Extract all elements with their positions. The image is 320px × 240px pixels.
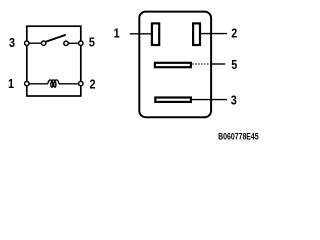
leader line pin 5 (dotted inside body) (192, 63, 211, 65)
coil L1 (48, 80, 59, 87)
svg-text:1: 1 (114, 25, 120, 40)
wire from fixed contact to pin 5 terminal (68, 42, 80, 44)
contact circle (fixed) (64, 41, 68, 45)
pin 5 slot (155, 63, 191, 67)
pin 3 terminal (25, 41, 29, 45)
pin 2 slot (193, 23, 200, 45)
pin 2 terminal (79, 81, 83, 85)
svg-text:2: 2 (231, 25, 237, 40)
pin 3 slot (155, 98, 191, 102)
svg-text:5: 5 (231, 57, 237, 72)
leader line pin 5 (solid outside body) (210, 63, 225, 65)
contact circle (movable) (41, 41, 45, 45)
relay schematic box (27, 26, 81, 96)
svg-text:3: 3 (9, 35, 15, 50)
svg-text:B060778E45: B060778E45 (218, 132, 259, 142)
pin 1 terminal (25, 81, 29, 85)
svg-text:3: 3 (231, 93, 237, 108)
leader line pin 3 (192, 99, 227, 101)
wire from pin 3 terminal to movable contact (27, 42, 42, 44)
svg-text:1: 1 (8, 76, 14, 91)
wire from coil to pin 2 terminal (59, 83, 81, 85)
pin 5 terminal (79, 41, 83, 45)
svg-text:2: 2 (89, 76, 95, 91)
svg-text:5: 5 (89, 35, 95, 50)
connector body (139, 12, 211, 118)
leader line pin 1 (130, 33, 151, 35)
switch blade (45, 35, 66, 42)
pin 1 slot (152, 23, 159, 45)
leader line pin 2 (201, 33, 228, 35)
wire from pin 1 terminal to coil (27, 83, 48, 85)
